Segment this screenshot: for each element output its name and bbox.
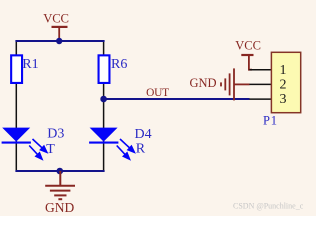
svg-text:T: T [46,142,55,157]
svg-text:GND: GND [190,76,217,90]
svg-text:2: 2 [280,78,287,93]
svg-text:GND: GND [45,200,74,215]
svg-text:3: 3 [280,92,287,107]
svg-text:D4: D4 [135,127,152,142]
svg-text:OUT: OUT [146,87,169,99]
svg-text:VCC: VCC [43,12,69,26]
svg-text:P1: P1 [263,113,278,127]
svg-text:D3: D3 [47,127,64,142]
svg-text:R: R [136,141,146,156]
svg-text:R6: R6 [111,57,127,72]
svg-text:CSDN @Punchline_c: CSDN @Punchline_c [233,201,304,210]
svg-text:R1: R1 [22,57,38,72]
svg-text:VCC: VCC [235,39,261,53]
svg-text:1: 1 [280,63,287,78]
